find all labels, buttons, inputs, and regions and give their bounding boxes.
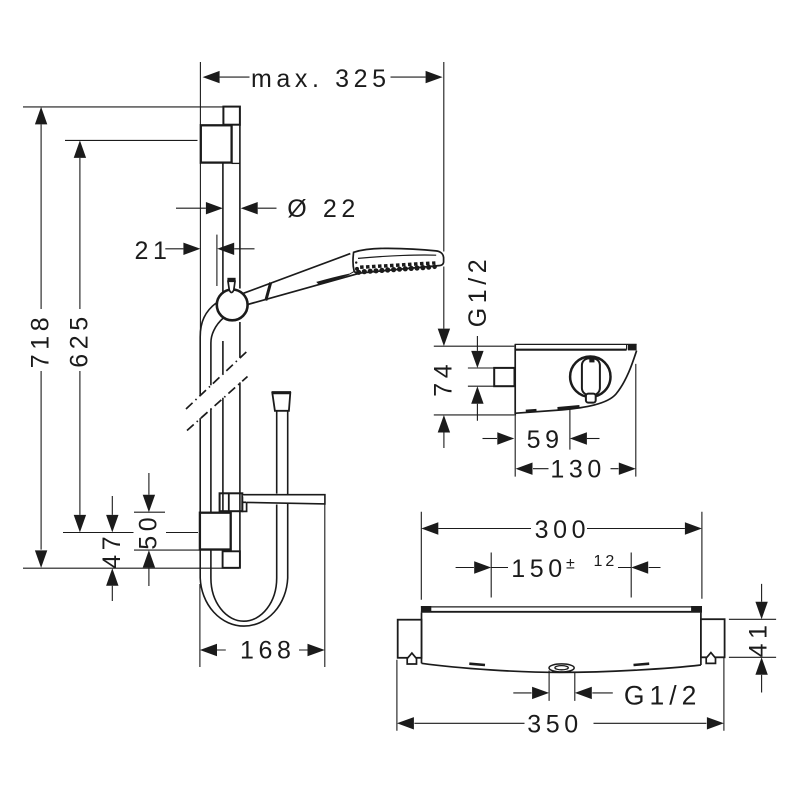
svg-text:41: 41 (745, 620, 773, 657)
svg-text:50: 50 (135, 513, 163, 550)
right connector (front) (701, 619, 725, 657)
hand shower handle (241, 254, 361, 306)
dimension 21 (135, 235, 255, 286)
thermostat shelf plate (side) (515, 344, 637, 350)
upper wall bracket (201, 125, 232, 162)
wall extension line (left view) (199, 62, 201, 337)
svg-text:G1/2: G1/2 (464, 255, 492, 328)
soap dish mount on rail (220, 493, 243, 511)
svg-text:G1/2: G1/2 (624, 680, 701, 710)
bottom inlet marks (469, 664, 485, 665)
thermostat body curve (side) (516, 351, 637, 414)
svg-text:Ø 22: Ø 22 (287, 195, 360, 223)
reference line bracket center (625 top) (65, 139, 198, 141)
shower head rim line (358, 255, 436, 258)
svg-text:350: 350 (527, 710, 583, 738)
front body (422, 613, 701, 673)
handle separator ring (266, 283, 271, 301)
dimension 625 (65, 140, 93, 532)
dimension max. 325 (203, 65, 443, 93)
dimension 718 (27, 107, 55, 568)
dimension 50 (135, 473, 163, 586)
reference line 50 bottom (134, 549, 231, 551)
thermostat back wall line (514, 344, 516, 415)
shower head (353, 248, 444, 273)
slider knob (217, 290, 248, 321)
soap dish mount step (242, 502, 246, 511)
reference line 50 top (134, 511, 165, 513)
svg-text:130: 130 (550, 456, 606, 484)
side reference line bottom (434, 414, 515, 416)
svg-text:max. 325: max. 325 (251, 65, 391, 93)
dimension G1/2 (side) (464, 255, 492, 421)
shower rail tube (223, 125, 240, 568)
small line under top bracket (232, 162, 240, 164)
svg-text:12: 12 (594, 553, 618, 570)
svg-text:74: 74 (430, 360, 458, 397)
svg-text:59: 59 (527, 426, 564, 454)
select indicator on handle (318, 274, 349, 283)
body foot marks (526, 409, 537, 412)
dimension 47 (98, 496, 126, 601)
reference line 625 bottom / 47 top (63, 532, 198, 534)
rail top end cap (223, 107, 240, 125)
shower hose bottom loop (200, 578, 288, 626)
side reference line top (434, 345, 515, 347)
extension line max325 right / G1-2 chain (443, 62, 445, 329)
left connector (front) (398, 620, 422, 658)
slider lever (227, 278, 235, 293)
svg-text:718: 718 (27, 313, 55, 369)
lower wall bracket (200, 513, 231, 550)
soap dish (side view) (242, 495, 325, 504)
side reference line connector top (468, 367, 494, 369)
svg-text:47: 47 (98, 532, 126, 569)
dimension 150 +/- 12 (456, 553, 661, 583)
left nub (407, 653, 416, 664)
thermostat knob (side) (570, 357, 610, 403)
break line lower (dash-dot) (187, 377, 248, 431)
extension lines 150 (491, 553, 631, 598)
reference line rail top (718 top) (23, 106, 223, 108)
shower head pivot dot (355, 261, 357, 263)
dimension 41 (729, 584, 776, 693)
dimension diameter 22 (176, 195, 360, 223)
hose conical fitting (272, 393, 291, 411)
dimension G1/2 (front) (513, 680, 701, 710)
svg-text:21: 21 (135, 237, 172, 265)
svg-text:±: ± (566, 556, 578, 573)
side reference line connector bottom (468, 385, 494, 387)
rail bottom end cap (223, 551, 240, 568)
svg-text:168: 168 (240, 636, 296, 664)
dimension 130 (516, 456, 636, 484)
dimension 59 (483, 426, 600, 454)
break line upper (dash-dot) (186, 350, 248, 409)
shower hose right side (277, 411, 288, 578)
extension lines side view (515, 364, 636, 477)
dimension 74 (430, 329, 458, 448)
extension lines 350 (397, 657, 724, 730)
dimension 168 (200, 505, 325, 668)
extension lines drain (549, 671, 575, 701)
svg-text:300: 300 (535, 516, 591, 544)
right nub (706, 653, 715, 664)
svg-text:150: 150 (511, 555, 567, 583)
inlet connector (side) (494, 368, 514, 386)
extension lines 300 (421, 512, 702, 600)
dimension 300 (421, 516, 702, 544)
front shelf plate (421, 606, 702, 613)
shower hose left side (200, 303, 224, 578)
reference line rail bottom (718/47 bottom) (23, 567, 239, 569)
spray nozzles (355, 261, 437, 275)
svg-text:625: 625 (65, 312, 93, 368)
drain fitting G1/2 (549, 664, 574, 672)
dimension 350 (397, 710, 724, 738)
